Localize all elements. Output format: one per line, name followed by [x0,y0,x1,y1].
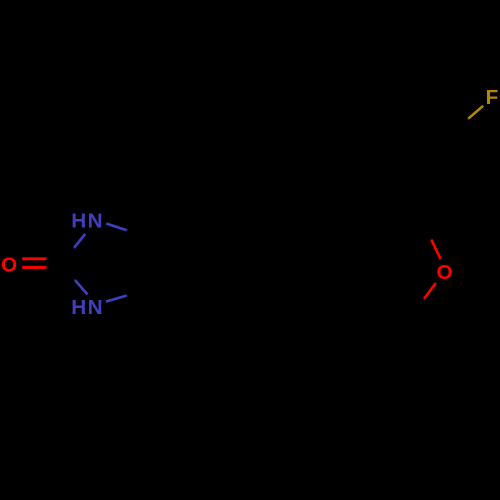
bond C2=O double bond, upper red line (oxygen half) [22,257,47,260]
bond Caryl-O(ether), oxygen half (red diagonal going up from ether O) [431,239,441,259]
bond C2=O double bond, lower red line (oxygen half) [22,266,47,269]
bond O(ether)-CH3, oxygen half (red diagonal going down-left from ether O) [424,283,436,300]
svg-text:H: H [71,209,86,232]
bond C-F, fluorine half (gold diagonal, top right) [468,106,484,120]
svg-text:O: O [437,261,453,284]
bond N3-C2, nitrogen half (lower-left blue diagonal) [74,279,87,294]
bond N3-C3a, nitrogen half (lower-right blue diagonal) [106,295,128,301]
svg-text:N: N [88,209,103,232]
svg-text:N: N [88,296,103,319]
bond N1-C7a, nitrogen half (upper-right blue diagonal) [106,224,127,231]
bond N1-C2, nitrogen half (upper-left blue diagonal) [74,234,86,249]
svg-text:H: H [71,296,86,319]
svg-text:O: O [1,254,17,277]
svg-text:F: F [486,86,499,109]
